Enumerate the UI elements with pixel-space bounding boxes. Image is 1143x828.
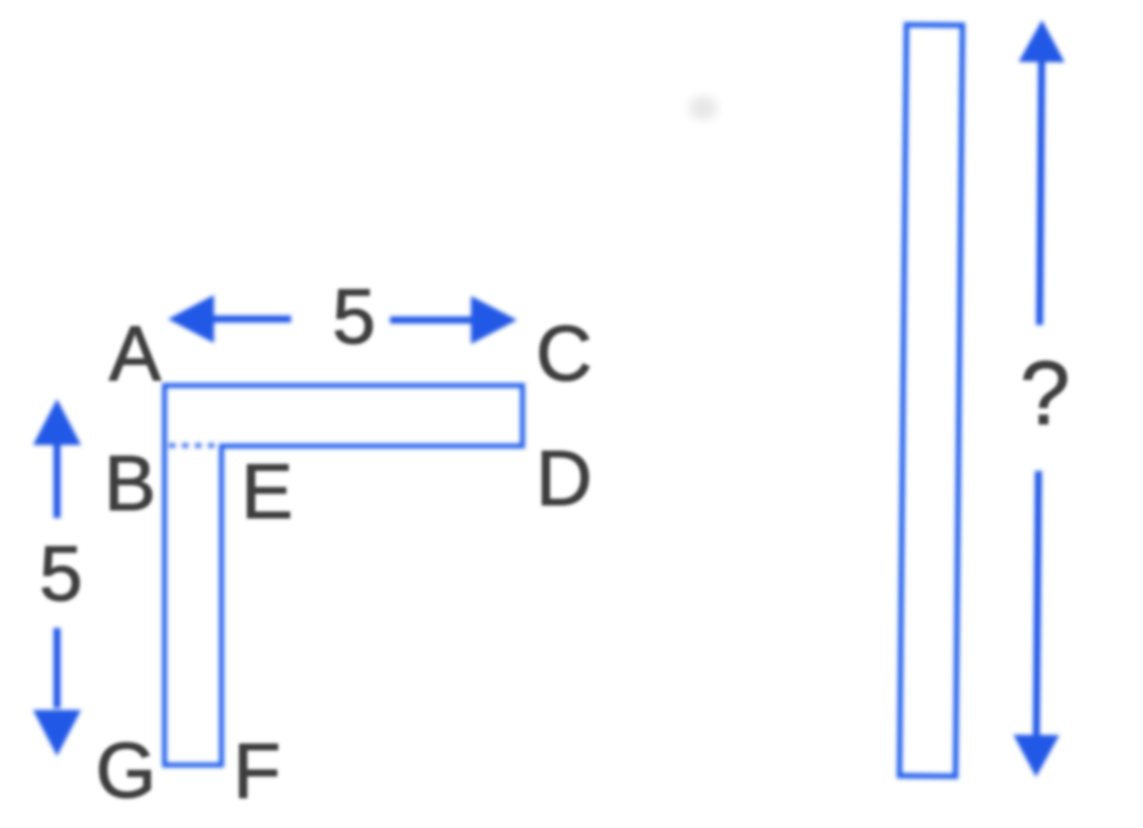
faint smudge — [689, 96, 717, 120]
right dimension down arrow — [1036, 471, 1038, 735]
top dimension left arrow — [213, 316, 291, 323]
left dimension down arrow — [54, 628, 61, 708]
svg-text:C: C — [536, 309, 592, 397]
svg-text:5: 5 — [39, 529, 82, 617]
right tall rectangle — [900, 25, 963, 776]
L-shape outline ACDEFG — [165, 386, 523, 766]
svg-text:G: G — [96, 726, 157, 814]
svg-text:?: ? — [1020, 344, 1070, 444]
svg-text:E: E — [241, 447, 293, 535]
right dimension up arrow — [1013, 20, 1065, 777]
svg-text:5: 5 — [332, 272, 375, 360]
svg-text:D: D — [536, 434, 592, 522]
svg-text:A: A — [109, 309, 161, 397]
left dimension up arrow — [54, 444, 61, 518]
svg-text:F: F — [233, 727, 281, 815]
svg-text:B: B — [104, 439, 156, 527]
dotted line B-E — [169, 443, 221, 448]
top dimension right arrow — [390, 317, 472, 324]
